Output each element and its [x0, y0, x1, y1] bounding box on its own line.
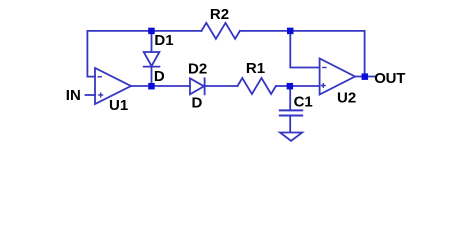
svg-text:OUT: OUT	[374, 70, 405, 87]
svg-text:D: D	[154, 68, 165, 85]
svg-text:D1: D1	[154, 32, 173, 49]
svg-text:C1: C1	[294, 94, 313, 111]
svg-text:R1: R1	[246, 60, 265, 77]
svg-text:IN: IN	[66, 87, 81, 104]
svg-text:D2: D2	[188, 61, 207, 78]
svg-text:R2: R2	[210, 6, 229, 23]
svg-text:U1: U1	[109, 97, 128, 114]
svg-text:U2: U2	[337, 90, 356, 107]
svg-text:D: D	[192, 95, 203, 112]
